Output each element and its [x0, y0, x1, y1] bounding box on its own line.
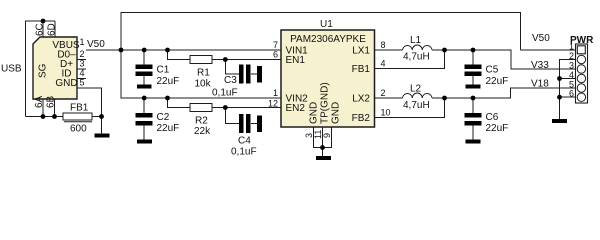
ground C5	[466, 85, 481, 89]
wire 6C stub	[42, 21, 44, 37]
wire FB1 right to junction	[92, 116, 102, 118]
svg-text:GND: GND	[309, 102, 320, 124]
svg-text:V50: V50	[87, 39, 105, 50]
wire 6D stub	[54, 21, 56, 37]
wire PWR V50	[521, 49, 578, 51]
svg-text:6B: 6B	[46, 95, 57, 108]
wire V18 net	[432, 88, 578, 98]
wire U1 gnd lead	[322, 148, 324, 157]
svg-text:7: 7	[273, 40, 278, 50]
svg-text:GND: GND	[331, 102, 342, 124]
svg-text:8: 8	[381, 40, 386, 50]
inductor L1	[403, 45, 433, 50]
svg-text:6: 6	[273, 50, 278, 60]
node PWR pin4 gnd	[557, 76, 562, 81]
svg-text:C2: C2	[157, 112, 170, 123]
U1 left pin names	[286, 46, 309, 115]
svg-text:4,7uH: 4,7uH	[403, 52, 430, 63]
svg-text:L2: L2	[410, 84, 422, 95]
node C6 top	[471, 96, 476, 101]
svg-text:C3: C3	[224, 75, 237, 86]
svg-text:1: 1	[273, 88, 278, 98]
svg-text:600: 600	[70, 124, 87, 135]
svg-text:USB: USB	[1, 64, 22, 75]
node C1 top	[142, 48, 147, 53]
node FB1 out	[99, 114, 104, 119]
capacitor C4	[231, 114, 257, 158]
wire C4 gnd lead	[251, 123, 258, 125]
node R1 tap	[165, 48, 170, 53]
wire PWR pin4 stub	[560, 78, 578, 80]
inductor L2	[403, 93, 433, 98]
svg-text:12: 12	[268, 99, 278, 109]
wire PWR pin6 stub	[560, 96, 578, 98]
svg-text:U1: U1	[320, 19, 333, 30]
svg-text:C5: C5	[486, 65, 499, 76]
op-amp U1 body	[281, 19, 375, 127]
wire USB pin3 stub	[77, 68, 86, 70]
svg-text:GND: GND	[55, 78, 77, 89]
wire top rail V50	[121, 13, 521, 51]
svg-text:FB2: FB2	[352, 113, 371, 124]
svg-text:LX2: LX2	[352, 94, 370, 105]
svg-text:2: 2	[569, 51, 574, 61]
svg-text:L1: L1	[410, 35, 422, 46]
wire USB pin2 stub	[77, 59, 86, 61]
svg-text:1: 1	[569, 42, 574, 52]
USB labels	[38, 40, 80, 89]
node 6A	[41, 114, 46, 119]
svg-text:10: 10	[381, 108, 391, 118]
connector PWR body	[570, 35, 594, 103]
ferrite bead FB1	[63, 103, 92, 135]
ground C4	[257, 116, 262, 133]
capacitor C6	[465, 112, 509, 134]
node R2 tap	[165, 96, 170, 101]
ground C1	[137, 85, 152, 89]
svg-text:C1: C1	[157, 65, 170, 76]
resistor R1	[190, 56, 212, 90]
ground after FB1	[95, 134, 110, 138]
wire C1 gnd lead	[143, 76, 145, 85]
ground C2	[137, 140, 152, 144]
svg-text:6: 6	[569, 89, 574, 99]
node V50/top rail	[119, 48, 124, 53]
capacitor C3	[212, 65, 251, 99]
node EN2/C4	[223, 105, 228, 110]
U1 bottom pin names	[309, 82, 342, 124]
svg-text:C4: C4	[238, 136, 251, 147]
svg-text:22uF: 22uF	[486, 76, 509, 87]
wire C4 leg	[225, 108, 239, 124]
svg-text:FB1: FB1	[70, 103, 89, 114]
wire LX2 to L2	[375, 97, 403, 99]
svg-text:EN1: EN1	[286, 55, 306, 66]
wire LX1 to L1	[375, 49, 403, 51]
USB pin numbers	[34, 23, 85, 108]
wire V33 net	[432, 50, 578, 69]
svg-text:9: 9	[322, 133, 332, 138]
svg-text:22uF: 22uF	[157, 123, 180, 134]
wire rail2 VIN2	[121, 50, 281, 98]
svg-text:V33: V33	[531, 60, 549, 71]
svg-text:22uF: 22uF	[157, 76, 180, 87]
wire C3 leg	[225, 60, 239, 75]
wire U1 gnd pins	[314, 127, 332, 148]
wire C5 top lead	[472, 50, 474, 65]
resistor R2	[190, 104, 212, 138]
capacitor C2	[136, 112, 180, 134]
wire FB2 sense	[375, 98, 445, 118]
wire USB ground bottom	[26, 116, 64, 118]
svg-text:4,7uH: 4,7uH	[403, 100, 430, 111]
ground C6	[466, 140, 481, 144]
svg-text:V18: V18	[531, 79, 549, 90]
svg-text:22k: 22k	[194, 126, 211, 137]
svg-text:6C: 6C	[35, 23, 46, 36]
node shell junction	[41, 19, 46, 24]
svg-text:EN2: EN2	[286, 103, 306, 114]
ground PWR	[552, 119, 567, 123]
PWR pin numbers	[569, 42, 574, 99]
svg-text:2: 2	[79, 49, 84, 59]
svg-text:4: 4	[569, 70, 574, 80]
svg-text:R1: R1	[197, 68, 210, 79]
wire USB pin5 GND	[77, 88, 102, 134]
svg-text:4: 4	[381, 59, 386, 69]
wire 6B stub	[54, 99, 56, 117]
ground C3	[257, 66, 262, 83]
svg-text:2: 2	[381, 88, 386, 98]
USB connector J-USB body	[33, 37, 77, 99]
wire C3 gnd lead	[251, 73, 258, 75]
wire R1 drop	[168, 50, 191, 60]
capacitor C5	[465, 65, 509, 88]
wire C6 top lead	[472, 98, 474, 113]
wire C2 top lead	[143, 98, 145, 113]
wire C2 gnd lead	[143, 126, 145, 140]
wire USB shell top	[26, 21, 56, 117]
node C2 top	[142, 96, 147, 101]
U1 pin numbers	[268, 40, 391, 139]
wire EN1	[212, 59, 281, 61]
node EN1/C3	[223, 57, 228, 62]
wire EN2	[212, 107, 281, 109]
wire R2 drop	[168, 98, 191, 108]
capacitor C1	[136, 65, 180, 88]
svg-text:4: 4	[79, 68, 84, 78]
svg-text:10k: 10k	[195, 79, 212, 90]
svg-text:C6: C6	[486, 112, 499, 123]
wire V50 rail	[86, 49, 281, 51]
node U1 gnd	[320, 145, 325, 150]
svg-text:SG: SG	[38, 63, 49, 78]
wire USB pin4 stub	[77, 78, 86, 80]
svg-text:TP(GND): TP(GND)	[320, 82, 331, 124]
svg-text:22uF: 22uF	[486, 123, 509, 134]
svg-text:3: 3	[569, 61, 574, 71]
svg-text:LX1: LX1	[352, 46, 370, 57]
svg-text:R2: R2	[195, 116, 208, 127]
svg-text:0,1uF: 0,1uF	[212, 88, 238, 99]
svg-text:6A: 6A	[34, 95, 45, 108]
wire C5 gnd lead	[472, 76, 474, 85]
U1 right pin names	[352, 46, 371, 125]
node PWR pin6 gnd	[557, 95, 562, 100]
node C5 top	[471, 48, 476, 53]
wire C6 gnd lead	[472, 126, 474, 140]
svg-text:V50: V50	[532, 33, 550, 44]
svg-text:1: 1	[79, 37, 84, 47]
wire 6A stub	[42, 99, 44, 117]
wire C1 top lead	[143, 50, 145, 65]
node FB1 tie	[442, 48, 447, 53]
wire FB1 sense	[375, 50, 445, 69]
svg-text:FB1: FB1	[352, 64, 371, 75]
wire U1 gnd pin mid	[322, 127, 324, 148]
node 6B	[52, 114, 57, 119]
svg-text:6D: 6D	[47, 23, 58, 36]
svg-text:5: 5	[79, 78, 84, 88]
svg-text:PAM2306AYPKE: PAM2306AYPKE	[290, 34, 366, 45]
wire PWR gnd vertical	[560, 60, 578, 120]
svg-text:0,1uF: 0,1uF	[231, 147, 257, 158]
node FB2 tie	[442, 96, 447, 101]
svg-text:3: 3	[79, 59, 84, 69]
ground U1	[316, 156, 331, 160]
